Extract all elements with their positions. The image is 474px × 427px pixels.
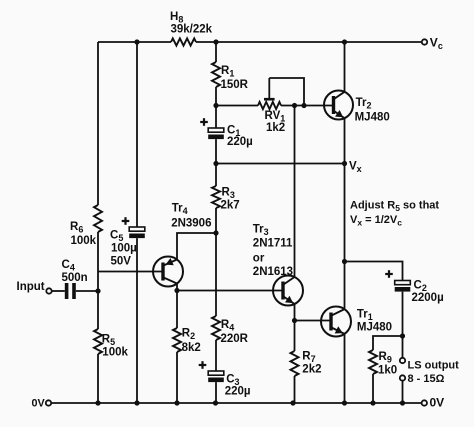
capacitor C4 500n (65, 283, 76, 299)
label Tr3 or (253, 252, 265, 264)
svg-text:100k: 100k (102, 347, 128, 359)
label Tr3 (253, 223, 269, 237)
wire Vx (216, 163, 345, 165)
resistor R4 220R (212, 316, 220, 340)
label R9 (379, 351, 392, 365)
wire R1 node to RV1 (216, 105, 258, 107)
resistor R1 150R (212, 62, 220, 87)
label R5 value 100k (102, 347, 128, 359)
wire top supply rail left (98, 41, 171, 43)
svg-text:150R: 150R (221, 79, 249, 91)
wire RV1 to Tr2 base (281, 105, 334, 107)
label LS impedance 8-15 ohm (408, 373, 445, 385)
node junction Vx left (213, 161, 218, 166)
wire C1 to R3 (215, 139, 217, 186)
wire Tr3 emitter to Tr1 base (295, 320, 332, 322)
wire R1 to C1 (215, 87, 217, 128)
svg-text:100k: 100k (71, 235, 97, 247)
svg-text:or: or (253, 252, 265, 264)
label C4 (62, 259, 75, 273)
label C3 value 220u (225, 386, 251, 398)
svg-text:MJ480: MJ480 (357, 321, 392, 333)
svg-text:0V: 0V (430, 396, 445, 410)
resistor R9 1k0 (369, 350, 377, 374)
label C5 value 100u (111, 243, 137, 255)
wire R4 to C3 (215, 340, 217, 371)
svg-text:220µ: 220µ (227, 136, 253, 148)
transistor Tr2 MJ480 (324, 91, 353, 120)
label R1 value 150R (221, 79, 249, 91)
node junction Vx right (342, 161, 347, 166)
wire Tr3 emitter lead (294, 304, 296, 320)
wire C4 to bias node (76, 290, 98, 292)
node junction C3 bottom (213, 400, 218, 405)
label LS output (408, 360, 460, 372)
node junction Tr4 collector (174, 288, 179, 293)
wire Tr1 collector (344, 262, 346, 310)
svg-text:2k7: 2k7 (221, 200, 240, 212)
resistor H8 39k/22k (171, 38, 196, 45)
node junction Tr3 emitter Tr1 base (292, 318, 297, 323)
label R1 (221, 65, 234, 79)
resistor R3 2k7 (212, 186, 220, 208)
node junction R7 bottom (290, 400, 295, 405)
node junction output to C2 (342, 259, 347, 264)
wire R1 top lead (215, 42, 217, 62)
terminal 0V right (422, 400, 427, 405)
capacitor C5 100u 50V (122, 217, 145, 238)
svg-text:2200µ: 2200µ (412, 292, 444, 304)
wire R7 bottom lead (294, 376, 296, 403)
label Tr2 (356, 97, 372, 111)
label R2 value 8k2 (182, 342, 201, 354)
label C4 value 500n (62, 272, 88, 284)
label R6 (70, 221, 83, 235)
terminal 0V left (46, 400, 51, 405)
wire bottom rail (52, 402, 421, 404)
svg-text:1k0: 1k0 (378, 365, 397, 377)
label Tr4 type 2N3906 (171, 217, 211, 229)
node junction R9 bottom (370, 400, 375, 405)
wire C5 bottom lead (136, 238, 138, 403)
transistor Tr4 2N3906 (153, 257, 183, 287)
label R3 (222, 187, 235, 201)
wire Tr4 emitter lead (177, 233, 216, 260)
wire left rail lower (97, 354, 99, 403)
wire left rail middle (97, 232, 99, 329)
wire LS lower to rail (402, 381, 404, 403)
resistor R7 2k2 (291, 351, 299, 376)
wire Tr4 collector to Tr3 base (177, 290, 283, 292)
label Vx (349, 161, 362, 175)
label C2 value 2200u (412, 292, 444, 304)
label Tr1 type MJ480 (357, 321, 392, 333)
resistor R2 8k2 (173, 328, 181, 352)
wire Tr4 collector to R2 (176, 291, 178, 329)
svg-text:MJ480: MJ480 (355, 111, 390, 123)
node junction wiper tie (301, 103, 306, 108)
svg-text:39k/22k: 39k/22k (171, 24, 213, 36)
label R6 value 100k (71, 235, 97, 247)
resistor R5 100k (94, 329, 102, 354)
node junction C5 bottom (134, 400, 139, 405)
label RV1 (265, 110, 286, 124)
svg-text:8 - 15Ω: 8 - 15Ω (408, 373, 445, 385)
node junction R1 bottom RV1 (213, 103, 218, 108)
label R3 value 2k7 (221, 200, 240, 212)
wire R9 bottom lead (372, 374, 374, 403)
capacitor C1 220u (200, 118, 224, 139)
transistor Tr3 2N1711 (273, 276, 303, 306)
svg-text:2N3906: 2N3906 (171, 217, 211, 229)
label R5 (102, 334, 115, 348)
wire R9 branch (373, 336, 403, 350)
label R4 (221, 319, 234, 333)
potentiometer RV1 1k2 (258, 78, 281, 109)
label C5 (110, 230, 123, 244)
terminal LS output upper (400, 358, 405, 363)
capacitor C3 220u (199, 361, 224, 382)
svg-text:1k2: 1k2 (266, 122, 285, 134)
svg-text:50V: 50V (111, 256, 132, 268)
wire Tr2 emitter to Vx (344, 118, 346, 163)
label C5 voltage 50V (111, 256, 132, 268)
svg-text:Input: Input (17, 281, 45, 293)
resistor R6 100k (94, 205, 102, 232)
node junction Tr1 emitter bottom (342, 400, 347, 405)
label R2 (182, 328, 195, 342)
wire output node to C2 (345, 262, 403, 281)
svg-text:100µ: 100µ (111, 243, 137, 255)
label C3 (226, 373, 239, 387)
wire R2 bottom lead (176, 352, 178, 403)
capacitor C2 2200u (385, 270, 410, 291)
label Tr3 type 2N1613 (253, 266, 293, 278)
label Tr4 (172, 203, 188, 217)
svg-text:2N1711: 2N1711 (253, 237, 293, 249)
node junction R3 bottom Tr4 emitter (213, 230, 218, 235)
terminal Vc (422, 39, 427, 44)
node junction C2 R9 (400, 333, 405, 338)
wire R7 top lead (294, 321, 296, 352)
label Input (17, 281, 45, 293)
label H8 (170, 11, 183, 25)
svg-text:8k2: 8k2 (182, 342, 201, 354)
wire left rail upper (97, 42, 99, 205)
label R4 value 220R (221, 333, 249, 345)
wire R3 to R4 (215, 208, 217, 316)
label Tr2 type MJ480 (355, 111, 390, 123)
transistor Tr1 MJ480 (321, 307, 351, 337)
label R9 value 1k0 (378, 365, 397, 377)
wire Vx to C2 node (344, 164, 346, 262)
wire Tr4 base (98, 271, 163, 273)
svg-text:500n: 500n (62, 272, 88, 284)
node junction R2 bottom (174, 400, 179, 405)
svg-text:0V: 0V (32, 398, 46, 410)
label R7 value 2k2 (302, 364, 321, 376)
label C1 value 220u (227, 136, 253, 148)
node junction LS bottom (400, 400, 405, 405)
label 0V right (430, 396, 445, 410)
wire Tr1 emitter (344, 334, 346, 403)
node junction input coupling (95, 288, 100, 293)
svg-text:Adjust R5 so that: Adjust R5 so that (350, 200, 439, 214)
terminal LS output lower (400, 375, 405, 380)
svg-text:LS output: LS output (408, 360, 460, 372)
note adjust R5 (350, 200, 439, 228)
wire C5 top lead (136, 42, 138, 227)
svg-text:2N1613: 2N1613 (253, 266, 293, 278)
wire C3 bottom lead (215, 382, 217, 403)
svg-text:220µ: 220µ (225, 386, 251, 398)
node junction Tr3 collector feed (292, 103, 297, 108)
terminal input (46, 288, 51, 293)
svg-text:2k2: 2k2 (302, 364, 321, 376)
node junction Tr2 collector (342, 39, 347, 44)
wire Tr4 collector lead (176, 284, 178, 291)
wire Tr2 collector (344, 42, 346, 92)
label R7 (302, 350, 315, 364)
label H8 value 39k/22k (171, 24, 213, 36)
node junction R5 bottom (95, 400, 100, 405)
label Tr3 type 2N1711 (253, 237, 293, 249)
node junction C5 top (134, 39, 139, 44)
wire input to C4 (52, 290, 65, 292)
svg-text:220R: 220R (221, 333, 249, 345)
label C2 (414, 280, 427, 294)
node junction R1 top (213, 39, 218, 44)
label 0V left (32, 398, 46, 410)
wire C2 bottom lead (402, 292, 404, 358)
label RV1 value 1k2 (266, 122, 285, 134)
label Tr1 (357, 309, 373, 323)
wire Tr3 collector to RV1 node (294, 106, 296, 278)
label C1 (227, 125, 240, 139)
label Vc (430, 35, 443, 51)
wire top supply rail right (196, 41, 421, 43)
wire RV1 wiper loop (269, 78, 304, 106)
